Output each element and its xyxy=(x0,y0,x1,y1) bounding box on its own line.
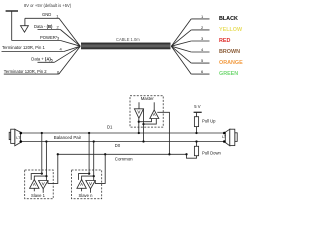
slave1 wire D0 tap xyxy=(45,142,47,181)
junction slave1 node2 xyxy=(45,175,47,177)
slave n wire common xyxy=(95,154,105,183)
junction master D0 tap xyxy=(142,140,144,142)
wire pin2 Data- (B) xyxy=(38,30,81,47)
bus line Common xyxy=(58,153,187,155)
junction slave n common xyxy=(104,153,106,155)
resistor pull up xyxy=(194,112,198,133)
svg-text:GREEN: GREEN xyxy=(219,71,238,77)
wire master to common xyxy=(157,112,169,154)
junction slave n node1 xyxy=(88,172,90,174)
bus line D1 xyxy=(21,132,225,134)
wire pin5 Data+ (A) xyxy=(38,46,81,62)
slave n wire node1 to receiver xyxy=(79,174,90,180)
svg-text:Terminator 120R, Pin 2: Terminator 120R, Pin 2 xyxy=(4,69,47,74)
power bar 5V xyxy=(194,111,202,113)
junction slave1 D1 xyxy=(41,132,43,134)
bus line D0 xyxy=(21,141,225,143)
junction master D1 tap xyxy=(138,132,140,134)
svg-text:Data + (A): Data + (A) xyxy=(31,57,51,62)
svg-text:Slave n: Slave n xyxy=(79,193,94,198)
wire core 4 brown xyxy=(171,46,209,52)
junction slave n D0 xyxy=(93,140,95,142)
svg-text:Common: Common xyxy=(115,156,133,161)
junction right LT D1 xyxy=(223,132,226,135)
slave 1 box xyxy=(25,170,54,199)
junction master node2 xyxy=(142,123,144,125)
master driver triangle xyxy=(150,102,159,118)
slave1 wire node2 to receiver apex xyxy=(34,176,46,179)
junction right LT D0 xyxy=(223,140,226,143)
svg-text:D1: D1 xyxy=(107,124,113,129)
junction slave n node2 xyxy=(93,175,95,177)
wire core 1 black xyxy=(171,19,209,46)
svg-text:Pull Up: Pull Up xyxy=(202,118,216,123)
wire pin3 POWER xyxy=(12,41,81,47)
junction left LT D1 xyxy=(20,132,23,135)
wire pin1 GND xyxy=(25,18,80,46)
junction slave1 D0 xyxy=(45,140,47,142)
master receiver triangle xyxy=(134,102,143,118)
svg-text:8V or +5V (default is +5V): 8V or +5V (default is +5V) xyxy=(24,3,72,8)
wire master receiver to D1 xyxy=(138,118,140,133)
master box xyxy=(130,96,163,127)
svg-text:D0: D0 xyxy=(115,143,121,148)
slave n wire D0 tap xyxy=(93,142,95,181)
slave n wire D1 tap xyxy=(88,133,90,174)
svg-text:BROWN: BROWN xyxy=(219,49,240,55)
cable xyxy=(81,43,171,50)
wire core 6 green xyxy=(171,46,209,74)
slave n box xyxy=(72,170,102,199)
svg-text:Data - (B): Data - (B) xyxy=(34,24,53,29)
svg-text:POWER*: POWER* xyxy=(40,35,58,40)
wire node1 to driver leg xyxy=(139,119,152,122)
wire pin6 terminator 2 xyxy=(4,46,81,74)
junction pulldown common xyxy=(185,153,187,155)
connector LT left xyxy=(9,129,21,146)
svg-text:ORANGE: ORANGE xyxy=(219,60,243,66)
wire core 3 red xyxy=(171,41,209,46)
power supply bar xyxy=(6,11,18,41)
wire core 2 yellow xyxy=(171,30,209,46)
wire core 5 orange xyxy=(171,46,209,63)
wire pin4 terminator 1 xyxy=(2,46,81,51)
svg-text:RED: RED xyxy=(219,38,230,44)
wire node2 to driver leg xyxy=(144,119,157,125)
junction pullup D1 xyxy=(195,132,197,134)
svg-text:Master: Master xyxy=(141,96,155,101)
slave1 wire node1 to receiver xyxy=(31,174,42,180)
junction left LT D0 xyxy=(20,140,23,143)
junction master node1 xyxy=(138,121,140,123)
svg-text:Terminator 120R, Pin 1: Terminator 120R, Pin 1 xyxy=(2,45,45,50)
ground arrow symbol xyxy=(21,18,29,32)
svg-text:5 V: 5 V xyxy=(194,104,200,109)
svg-text:CABLE 1.0m: CABLE 1.0m xyxy=(116,37,140,42)
junction slave1 common xyxy=(57,153,59,155)
svg-text:BLACK: BLACK xyxy=(219,16,238,22)
connector LT right xyxy=(222,129,237,146)
junction slave n D1 xyxy=(88,132,90,134)
junction pulldown D0 xyxy=(195,140,197,142)
svg-text:GND: GND xyxy=(42,12,51,17)
svg-text:Balanced Pair: Balanced Pair xyxy=(54,135,82,140)
junction master common tap xyxy=(168,153,170,155)
resistor pull down xyxy=(187,142,199,159)
slave1 receiver triangle xyxy=(30,180,39,192)
svg-text:YELLOW: YELLOW xyxy=(219,27,243,33)
slave n receiver triangle xyxy=(77,180,86,192)
junction slave1 node1 xyxy=(41,172,43,174)
svg-text:Slave 1: Slave 1 xyxy=(31,193,46,198)
slave1 wire D1 tap xyxy=(41,133,43,174)
slave n driver triangle xyxy=(86,181,96,193)
wire master to D0 xyxy=(143,109,145,142)
slave1 wire common xyxy=(48,154,58,183)
slave n wire node2 to receiver apex xyxy=(82,176,94,179)
svg-text:Pull Down: Pull Down xyxy=(202,150,222,155)
slave1 driver triangle xyxy=(39,181,49,193)
